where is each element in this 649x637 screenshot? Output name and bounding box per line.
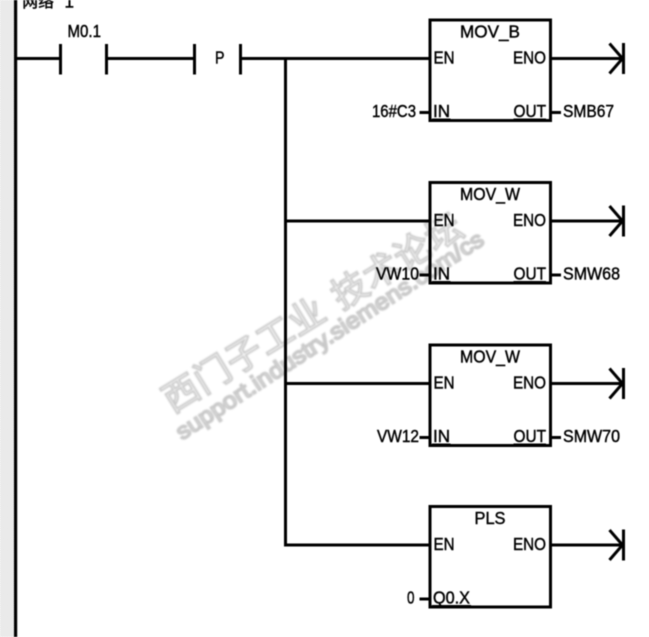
svg-text:1: 1 — [65, 0, 74, 12]
network label 网络 1 — [24, 0, 74, 12]
svg-text:MOV_B: MOV_B — [460, 22, 520, 43]
svg-text:VW12: VW12 — [377, 426, 419, 446]
function block MOV_W — [430, 183, 551, 284]
branch wire to MOV_W #1 EN — [284, 220, 430, 223]
wire MOV_W ENO to continuation arrow — [551, 382, 622, 385]
continuation arrow — [610, 530, 624, 561]
svg-text:EN: EN — [434, 48, 455, 68]
svg-text:OUT: OUT — [514, 101, 547, 121]
left margin dither strip — [0, 0, 14, 637]
svg-text:SMW68: SMW68 — [563, 264, 620, 284]
continuation arrow — [610, 368, 624, 399]
left power rail — [14, 0, 17, 637]
wire MOV_W ENO to continuation arrow — [551, 220, 622, 223]
svg-text:IN: IN — [433, 426, 450, 446]
svg-text:16#C3: 16#C3 — [372, 101, 416, 121]
svg-text:PLS: PLS — [475, 508, 506, 528]
svg-text:SMB67: SMB67 — [563, 101, 614, 121]
continuation arrow — [610, 43, 624, 74]
operand VW12 on IN pin — [377, 426, 430, 446]
branch wire to PLS EN — [284, 544, 430, 547]
svg-text:SMW70: SMW70 — [563, 426, 620, 446]
svg-text:M0.1: M0.1 — [68, 21, 102, 41]
wire PLS ENO to continuation arrow — [551, 544, 622, 547]
svg-text:ENO: ENO — [513, 373, 546, 393]
svg-text:EN: EN — [434, 373, 455, 393]
operand 16#C3 on IN pin — [372, 101, 430, 121]
svg-text:OUT: OUT — [514, 426, 547, 446]
svg-text:IN: IN — [433, 101, 450, 121]
wire contact P to block MOV_B EN — [242, 57, 430, 60]
svg-text:ENO: ENO — [513, 210, 546, 230]
svg-text:MOV_W: MOV_W — [460, 184, 520, 205]
svg-text:EN: EN — [434, 534, 455, 554]
operand VW10 on IN pin — [376, 264, 430, 284]
svg-text:P: P — [215, 48, 225, 68]
operand SMW70 on OUT pin — [551, 426, 621, 446]
function block PLS — [430, 507, 551, 608]
operand SMB67 on OUT pin — [551, 101, 615, 121]
vertical branch wire — [284, 57, 287, 547]
function block MOV_B — [430, 20, 551, 121]
operand SMW68 on OUT pin — [551, 264, 621, 284]
operand 0 on IN pin — [407, 588, 430, 608]
svg-text:Q0.X: Q0.X — [433, 588, 470, 608]
wire contact M0.1 to contact P — [108, 57, 193, 60]
svg-text:0: 0 — [407, 588, 415, 608]
contact P (positive transition) — [195, 44, 241, 75]
continuation arrow — [610, 206, 624, 237]
wire MOV_B ENO to continuation arrow — [551, 57, 622, 60]
svg-text:MOV_W: MOV_W — [460, 347, 520, 368]
watermark 西门子工业 技术论坛 support.industry.siemens.com/cs — [151, 202, 493, 445]
svg-text:ENO: ENO — [513, 48, 546, 68]
svg-text:ENO: ENO — [513, 534, 546, 554]
function block MOV_W — [430, 345, 551, 446]
svg-text:OUT: OUT — [514, 264, 547, 284]
wire rail to contact M0.1 — [16, 57, 59, 60]
branch wire to MOV_W #2 EN — [284, 382, 430, 385]
contact M0.1 — [61, 21, 107, 75]
